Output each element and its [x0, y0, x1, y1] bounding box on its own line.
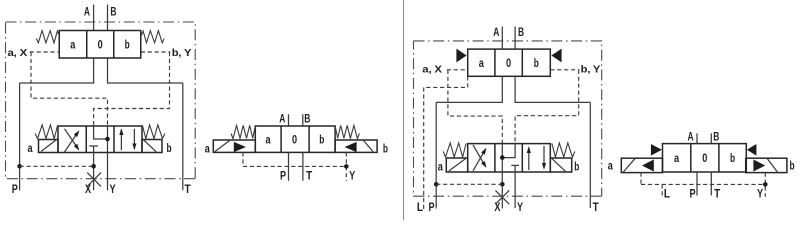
svg-text:b, Y: b, Y [172, 47, 192, 59]
P line [696, 172, 698, 196]
parallel arrow down [543, 146, 545, 168]
svg-text:Y: Y [517, 200, 523, 214]
drain dashed left drop [242, 152, 244, 166]
svg-text:a, X: a, X [422, 64, 442, 76]
crossed arrow P-B [65, 131, 79, 152]
T return line [182, 83, 184, 190]
valve body [255, 126, 335, 152]
actuator diagonal right [767, 159, 777, 172]
pilot valve body [468, 49, 551, 76]
plugged port X cross [87, 173, 101, 187]
drain dashed horizontal [243, 165, 346, 167]
svg-text:A: A [688, 130, 694, 144]
main valve end box left [39, 140, 59, 153]
svg-text:B: B [110, 5, 116, 19]
main spring left [443, 143, 466, 157]
junction dot Y [763, 182, 768, 187]
T line [302, 152, 304, 180]
svg-text:B: B [713, 130, 719, 144]
T return line [589, 102, 591, 208]
Y drain line [514, 172, 516, 208]
svg-text:a: a [205, 142, 210, 156]
svg-text:0: 0 [292, 133, 297, 147]
pilot actuation diagonal left [41, 139, 57, 152]
svg-text:P: P [12, 182, 18, 196]
actuator diagonal left [623, 159, 635, 172]
drain dashed horizontal [641, 183, 765, 185]
svg-text:a: a [479, 56, 484, 70]
svg-text:P: P [280, 168, 286, 182]
hydraulic pilot triangle left [234, 142, 246, 152]
wire B stub [302, 114, 304, 126]
main valve body [58, 126, 142, 153]
main spring right [142, 125, 164, 139]
junction dot on X line [91, 164, 96, 169]
junction dot on P line [434, 182, 439, 187]
blocked port T-bar [511, 165, 519, 172]
spring left [231, 125, 255, 138]
pilot triangle right [551, 49, 561, 63]
svg-text:a: a [438, 159, 443, 173]
drain dashed left drop [640, 173, 642, 185]
pilot line b,Y horizontal [550, 69, 579, 71]
svg-text:a, X: a, X [8, 47, 28, 59]
P supply line [19, 83, 21, 190]
svg-text:a: a [265, 133, 270, 147]
actuator diagonal right [364, 141, 373, 152]
X drain line [501, 172, 503, 209]
node junction dot [105, 137, 110, 142]
svg-text:X: X [85, 182, 91, 196]
actuator diagonal left [215, 141, 230, 152]
svg-text:b: b [319, 133, 324, 147]
T line [710, 172, 712, 196]
pilot valve port stubs to P and T [20, 58, 183, 83]
svg-text:0: 0 [702, 151, 707, 165]
svg-text:0: 0 [506, 56, 511, 70]
enclosure dash-dot border [6, 22, 196, 179]
actuator triangle right [753, 160, 765, 172]
wire A stub [696, 133, 698, 143]
P line [288, 152, 290, 180]
svg-text:T: T [184, 182, 191, 196]
svg-text:T: T [714, 187, 721, 201]
pilot actuation diagonal right [143, 139, 156, 152]
pilot triangle left [456, 49, 466, 63]
svg-text:B: B [304, 112, 310, 126]
svg-text:P: P [428, 200, 434, 214]
drain dashed right drop to Y [345, 152, 347, 181]
main valve end box left [446, 158, 467, 172]
svg-text:T: T [306, 168, 313, 182]
actuator box right [335, 140, 377, 152]
center position through line [107, 126, 109, 153]
node junction dot [500, 155, 505, 160]
pilot line a,X down [31, 52, 108, 126]
drain dashed L branch [661, 184, 663, 196]
svg-text:L: L [664, 187, 670, 201]
svg-text:b: b [534, 56, 539, 70]
svg-text:Y: Y [349, 168, 355, 182]
svg-text:0: 0 [98, 38, 103, 52]
pilot line b,Y down [94, 52, 170, 126]
dashed link P to X [436, 183, 502, 185]
pilot line a,X horizontal [447, 69, 468, 71]
svg-text:A: A [84, 5, 90, 19]
parallel arrow up [528, 148, 530, 170]
actuator triangle left [642, 160, 654, 172]
pilot valve body [59, 31, 141, 59]
valve body [663, 144, 747, 172]
Y drain line [107, 153, 109, 191]
wire A stub [288, 114, 290, 126]
actuator box left [621, 158, 662, 172]
svg-text:b: b [166, 141, 171, 155]
actuator box left [213, 140, 255, 152]
crossed arrow 1 [473, 149, 486, 171]
svg-text:X: X [494, 200, 500, 214]
wire A to pilot valve [93, 5, 95, 31]
blocked port T-bar [89, 146, 98, 153]
P supply line [435, 102, 437, 208]
drain line L dashed [424, 76, 468, 210]
plugged port X cross [495, 190, 509, 204]
svg-text:Y: Y [109, 182, 115, 196]
svg-text:a: a [608, 159, 613, 173]
junction dot on X line [500, 182, 505, 187]
svg-text:a: a [70, 38, 75, 52]
junction dot Y [344, 164, 349, 169]
pilot line b,Y horizontal [141, 51, 171, 53]
center position internal line to node [94, 126, 108, 139]
junction dot on P line [17, 164, 22, 169]
drain dashed right drop to Y [764, 173, 766, 197]
svg-text:T: T [593, 200, 600, 214]
pilot line b,Y down [515, 70, 579, 144]
actuator box right [746, 158, 787, 172]
svg-text:b, Y: b, Y [581, 64, 601, 76]
wire A to pilot valve [501, 27, 503, 50]
pilot spring right [141, 31, 164, 43]
hydraulic pilot triangle right [345, 142, 357, 152]
pilot triangle top left [651, 144, 662, 156]
X drain line [93, 153, 95, 191]
enclosure dash-dot border [414, 41, 602, 196]
pilot actuation diagonal left [449, 159, 466, 172]
center position internal line to node [502, 144, 515, 158]
main spring right [552, 143, 575, 157]
pilot line a,X horizontal [30, 51, 60, 53]
wire B stub [710, 133, 712, 143]
pilot valve port stubs to P and T [436, 76, 590, 102]
main valve end box right [142, 140, 162, 153]
wire B to pilot valve [107, 5, 109, 31]
pilot line a,X down [448, 70, 502, 144]
svg-text:b: b [125, 38, 130, 52]
crossed arrow A-T [65, 129, 79, 150]
dashed link P to X [20, 165, 94, 167]
svg-text:a: a [27, 141, 32, 155]
pilot spring left [36, 31, 59, 43]
main spring left [35, 125, 57, 139]
svg-text:b: b [383, 142, 388, 156]
main valve body [468, 144, 551, 172]
svg-text:a: a [674, 151, 679, 165]
parallel arrow down [133, 129, 135, 149]
center position through line [501, 144, 503, 172]
svg-text:P: P [689, 187, 695, 201]
pilot actuation diagonal right [552, 158, 566, 171]
svg-text:B: B [518, 25, 524, 39]
svg-text:A: A [493, 25, 499, 39]
svg-text:Y: Y [757, 187, 763, 201]
table column divider [403, 0, 405, 220]
spring right [335, 125, 359, 138]
parallel arrow up [120, 130, 122, 151]
svg-text:b: b [789, 159, 794, 173]
crossed arrow 2 [473, 145, 486, 167]
svg-text:L: L [417, 200, 423, 214]
svg-text:A: A [279, 112, 285, 126]
svg-text:b: b [574, 159, 579, 173]
main valve end box right [550, 158, 571, 172]
pilot triangle top right [747, 144, 757, 156]
svg-text:b: b [730, 151, 735, 165]
wire B to pilot valve [514, 27, 516, 50]
